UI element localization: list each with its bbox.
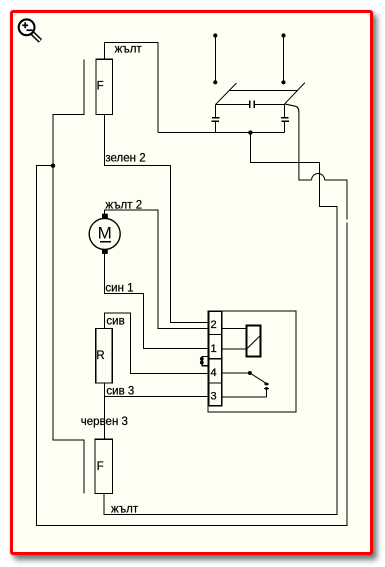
svg-text:1: 1 [211, 343, 217, 355]
svg-text:M: M [98, 223, 112, 242]
svg-text:сив: сив [106, 315, 124, 327]
svg-text:син 1: син 1 [105, 282, 133, 294]
svg-text:жълт: жълт [111, 503, 139, 515]
svg-text:червен 3: червен 3 [81, 416, 128, 428]
svg-text:жълт 2: жълт 2 [105, 199, 142, 211]
svg-text:F: F [97, 81, 104, 93]
svg-text:R: R [96, 350, 104, 362]
svg-text:3: 3 [211, 391, 217, 403]
svg-text:сив 3: сив 3 [106, 386, 134, 398]
svg-text:2: 2 [211, 319, 217, 331]
svg-text:4: 4 [211, 367, 217, 379]
svg-text:зелен 2: зелен 2 [105, 153, 145, 165]
svg-text:F: F [97, 461, 104, 473]
svg-text:жълт: жълт [115, 43, 143, 55]
